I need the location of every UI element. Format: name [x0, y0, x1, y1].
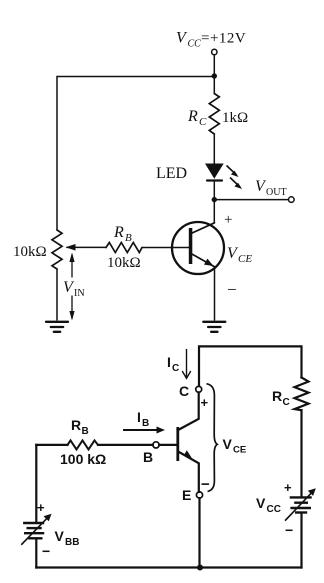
svg-text:−: −: [201, 476, 210, 493]
svg-text:OUT: OUT: [266, 187, 287, 198]
svg-text:CC: CC: [188, 39, 202, 50]
svg-text:B: B: [142, 418, 149, 429]
svg-text:B: B: [143, 449, 153, 465]
svg-text:B: B: [125, 232, 132, 244]
svg-text:100 kΩ: 100 kΩ: [60, 451, 106, 467]
svg-text:IN: IN: [74, 288, 85, 299]
svg-text:V: V: [223, 436, 233, 452]
svg-text:V: V: [55, 528, 65, 544]
svg-text:−: −: [227, 280, 237, 299]
svg-text:1kΩ: 1kΩ: [222, 110, 248, 126]
svg-text:−: −: [285, 522, 293, 538]
svg-text:E: E: [182, 487, 191, 503]
svg-text:R: R: [187, 108, 198, 125]
svg-text:R: R: [113, 224, 124, 241]
svg-text:I: I: [137, 409, 141, 425]
svg-text:−: −: [42, 543, 50, 559]
svg-text:B: B: [82, 426, 89, 437]
svg-text:C: C: [199, 116, 207, 128]
svg-text:LED: LED: [156, 165, 187, 182]
svg-text:C: C: [172, 363, 179, 374]
svg-text:CC: CC: [267, 504, 281, 515]
svg-text:10kΩ: 10kΩ: [107, 255, 141, 271]
svg-text:V: V: [256, 495, 266, 511]
svg-text:+: +: [201, 395, 209, 410]
svg-text:+: +: [224, 212, 232, 228]
svg-text:CE: CE: [233, 445, 246, 456]
svg-text:10kΩ: 10kΩ: [13, 244, 47, 260]
svg-text:R: R: [272, 388, 282, 404]
svg-text:C: C: [283, 397, 290, 408]
svg-text:CE: CE: [238, 253, 252, 265]
svg-text:I: I: [167, 354, 171, 370]
svg-text:+: +: [284, 480, 292, 495]
svg-text:BB: BB: [65, 537, 79, 548]
svg-text:+: +: [37, 500, 45, 515]
svg-text:=+12V: =+12V: [201, 31, 246, 47]
svg-text:R: R: [71, 417, 81, 433]
svg-text:C: C: [179, 383, 189, 399]
